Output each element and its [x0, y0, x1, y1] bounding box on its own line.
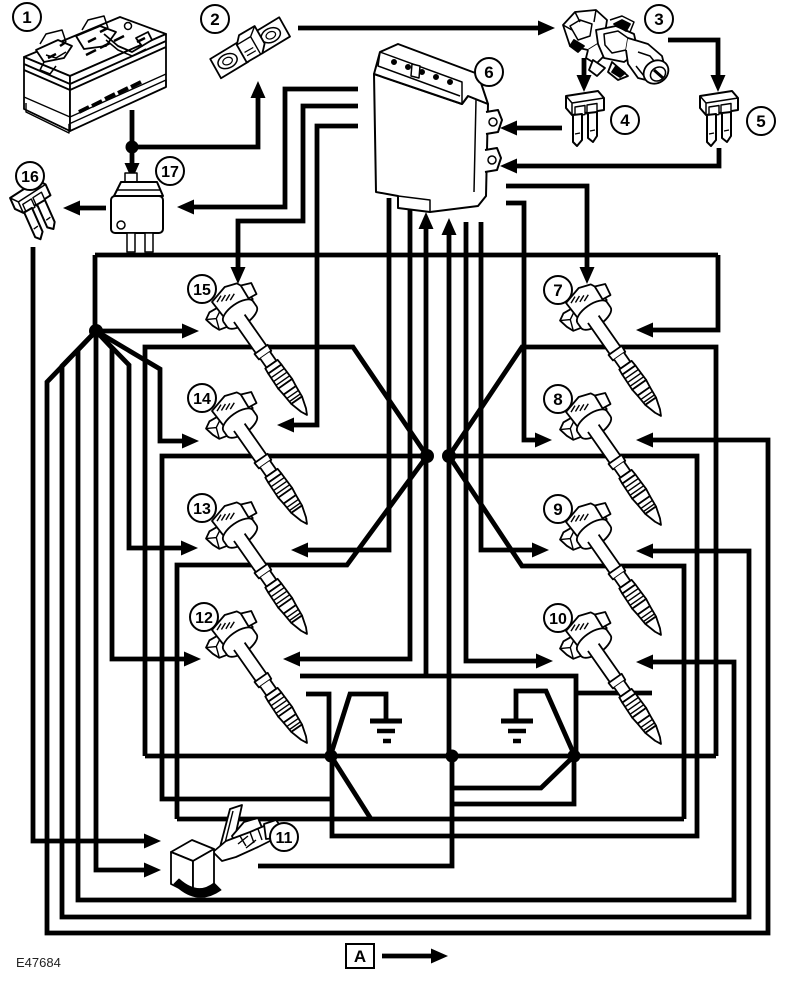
callout label 1 — [13, 3, 41, 31]
wire: coil 14 return to left bank node — [162, 456, 427, 799]
callout label 6 — [475, 58, 503, 86]
junction: ground bus middle node — [446, 750, 459, 763]
wire: coil 12 return line — [300, 676, 576, 752]
svg-text:A: A — [354, 947, 366, 966]
wire+arrow: supply bus to coil 7 — [636, 255, 718, 338]
junction: battery feed node — [126, 141, 139, 154]
wire+arrow: fuse 5 to ECM pin — [500, 148, 719, 174]
svg-text:2: 2 — [210, 10, 219, 29]
wire+arrow: junction to fusible link 2 — [132, 81, 266, 147]
ignition coil 10 — [551, 602, 686, 760]
svg-text:15: 15 — [193, 282, 211, 299]
wire: right ground symbol lead — [516, 691, 573, 752]
callout label 13 — [188, 494, 216, 522]
callout label 14 — [188, 384, 216, 412]
wire+arrow: fan-out to coil 13 — [96, 331, 198, 556]
svg-text:17: 17 — [161, 164, 179, 181]
wire+arrow: fuse 16 to sensor 11 upper pin — [33, 247, 161, 849]
wire+arrow: ECM trigger output to coil 12 — [283, 205, 410, 667]
ground symbol right — [501, 721, 533, 741]
callout label 12 — [190, 603, 218, 631]
ignition coil 13 — [197, 492, 332, 650]
wire+arrow: fan-out to coil 12 — [96, 331, 201, 667]
fusible link 2 — [205, 15, 294, 79]
wire: left bank node down to coil 12 return — [424, 456, 429, 676]
svg-text:1: 1 — [22, 8, 31, 27]
wire+arrow: fan-out to sensor 11 lower pin — [96, 331, 161, 878]
battery 1 — [24, 16, 166, 133]
wire: left ground symbol lead — [331, 694, 386, 754]
fuse 16 — [8, 178, 65, 244]
relay 17 — [111, 173, 163, 252]
callout label 3 — [645, 5, 673, 33]
wire+arrow: ECM trigger output to coil 7 — [506, 186, 595, 284]
svg-text:5: 5 — [756, 112, 765, 131]
wire: ECM sense line from right ignition bank node — [442, 218, 457, 456]
ignition switch 3 — [563, 10, 673, 88]
ignition coil 12 — [197, 601, 332, 759]
ignition coil 14 — [197, 382, 332, 540]
wire+arrow: ECM trigger output to coil 15 — [231, 106, 359, 284]
svg-text:4: 4 — [620, 111, 630, 130]
callout label 5 — [747, 107, 775, 135]
callout label 10 — [544, 604, 572, 632]
wire: engine ground bus — [145, 754, 716, 759]
ignition coil 9 — [551, 493, 686, 651]
wire+arrow: ECM trigger output to coil 14 — [277, 126, 358, 433]
callout label 7 — [544, 276, 572, 304]
svg-text:10: 10 — [549, 611, 567, 628]
svg-text:13: 13 — [193, 501, 211, 518]
fuse 4 — [566, 91, 604, 146]
wire: middle node down to sensor 11 return — [258, 756, 452, 866]
wire: coil 15 return to left bank node — [145, 347, 427, 756]
svg-text:14: 14 — [193, 391, 211, 408]
wire+arrow: ECM trigger output to coil 8 — [506, 203, 552, 448]
wire: left node diagonal to crossbar — [331, 756, 371, 819]
wire+arrow: fan-out to coil 14 — [96, 331, 199, 449]
wire+arrow: ECM trigger output to coil 10 — [466, 222, 553, 669]
callout label 16 — [16, 162, 44, 190]
wire+arrow: fan-out via bottom bus to coil 10 — [78, 331, 734, 900]
wire: ECM sense line from left ignition bank node — [419, 212, 434, 456]
wire: coil 9 return to right bank node — [449, 456, 684, 819]
wire+arrow: fusible link 2 to ignition switch 3 — [298, 21, 555, 36]
wire+arrow: ECM trigger output to coil 13 — [291, 198, 389, 558]
view arrow A box — [346, 944, 374, 968]
junction: ground bus right node — [568, 750, 581, 763]
svg-text:8: 8 — [553, 390, 562, 409]
wire+arrow: junction down to relay 17 — [125, 147, 140, 180]
wire: coil 10 spark return stub — [576, 691, 652, 696]
wire+arrow: ECM trigger output to coil 9 — [481, 222, 549, 558]
svg-text:7: 7 — [553, 281, 562, 300]
wire+arrow: fan-out via bottom bus to coil 9 — [62, 331, 749, 917]
wire: right bank node down to ground bus — [447, 456, 452, 756]
wire: coil 8 return to right bank node — [332, 456, 697, 836]
svg-text:16: 16 — [21, 169, 39, 186]
wire+arrow: ignition switch to fuse 4 — [577, 58, 592, 92]
junction: left bank node — [420, 449, 434, 463]
wire+arrow: fuse 4 to ECM pin — [500, 121, 562, 136]
wire+arrow: relay 17 to fuse 16 — [63, 201, 106, 216]
callout label 11 — [270, 823, 298, 851]
wire: relay output supply bus — [95, 253, 718, 258]
svg-text:6: 6 — [484, 63, 493, 82]
svg-text:9: 9 — [553, 500, 562, 519]
callout label 15 — [188, 275, 216, 303]
wire: battery positive feed down to junction — [130, 110, 135, 147]
ignition coil 15 — [197, 273, 332, 431]
wire: right node diagonal link — [452, 756, 574, 788]
callout label 8 — [544, 385, 572, 413]
callout label 2 — [201, 5, 229, 33]
ECM 6 — [374, 44, 502, 212]
junction: ground bus left node — [325, 750, 338, 763]
svg-text:12: 12 — [195, 610, 213, 627]
wire+arrow: ignition switch to fuse 5 — [668, 40, 726, 92]
wire+arrow: fan-out via bottom bus to coil 8 — [47, 331, 768, 933]
wire: coil 13 return to left bank node — [177, 456, 427, 819]
callout label 17 — [156, 157, 184, 185]
svg-text:3: 3 — [654, 10, 663, 29]
fuse 5 — [700, 91, 738, 146]
junction: supply fan-out node — [89, 324, 103, 338]
callout label 4 — [611, 106, 639, 134]
wire: lower return crossbar — [177, 817, 684, 822]
ignition coil 7 — [551, 274, 686, 432]
wire: coil 7 return to right bank node — [449, 347, 716, 756]
wire+arrow: ECM output to relay 17 coil — [177, 89, 358, 215]
svg-text:11: 11 — [276, 830, 293, 847]
svg-text:E47684: E47684 — [16, 955, 61, 970]
ignition coil 8 — [551, 383, 686, 541]
junction: right bank node — [442, 449, 456, 463]
ground symbol left — [370, 721, 402, 741]
wire: right node lower link — [452, 756, 574, 804]
wire+arrow: direction of travel A — [382, 949, 448, 964]
wire: supply bus down to fan-out node — [93, 255, 98, 331]
sensor 11 — [171, 805, 282, 897]
wire+arrow: fan-out to coil 15 — [96, 324, 199, 339]
wire: coil 12 spark to ground bus — [306, 694, 329, 752]
callout label 9 — [544, 495, 572, 523]
